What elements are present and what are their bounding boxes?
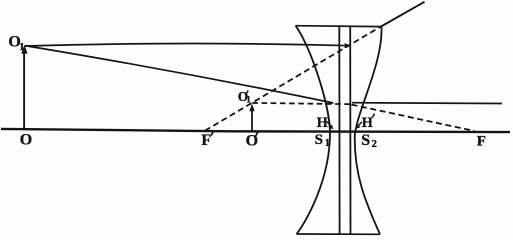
principal plane H (vertical line)	[338, 26, 340, 234]
image arrow shaft O'-O1'	[251, 107, 253, 131]
lens bottom edge	[297, 233, 381, 235]
ray from O1 aimed at far focus F (solid part to lens)	[25, 46, 334, 103]
svg-text:S: S	[315, 132, 323, 148]
ray parallel to axis (O1 to H' plane)	[25, 44, 351, 46]
object arrow shaft O1-O	[23, 50, 25, 130]
pointer arrow from label H to S1 vertex	[327, 121, 331, 126]
svg-text:1: 1	[246, 94, 251, 104]
dashed construction line from F' through image tip to lens corner	[205, 26, 381, 130]
svg-text:H: H	[317, 115, 328, 131]
svg-text:F: F	[477, 132, 486, 149]
lens top edge	[296, 25, 382, 28]
pointer arrow from label H' to S2 vertex	[358, 122, 362, 126]
svg-text:1: 1	[325, 138, 330, 149]
object arrowhead at O1	[21, 45, 27, 54]
svg-text:1: 1	[19, 42, 24, 53]
principal plane H' (vertical line)	[349, 26, 351, 234]
svg-text:S: S	[361, 132, 370, 149]
svg-text:F: F	[201, 132, 211, 149]
lens right concave surface	[355, 27, 382, 235]
exit ray parallel to axis (right of lens)	[352, 102, 502, 105]
svg-text:O: O	[20, 132, 32, 149]
optical axis	[1, 129, 510, 132]
image arrowhead at O1'	[249, 104, 254, 112]
svg-text:2: 2	[372, 139, 377, 150]
dashed line from H' plane to focus F	[352, 105, 475, 131]
dashed horizontal backward extension through image tip	[252, 103, 352, 104]
arrowhead at end of parallel ray	[345, 43, 352, 48]
refracted ray exiting lens (steep, up-right)	[381, 2, 425, 27]
svg-text:H: H	[362, 115, 373, 131]
lens left concave surface	[296, 26, 331, 234]
